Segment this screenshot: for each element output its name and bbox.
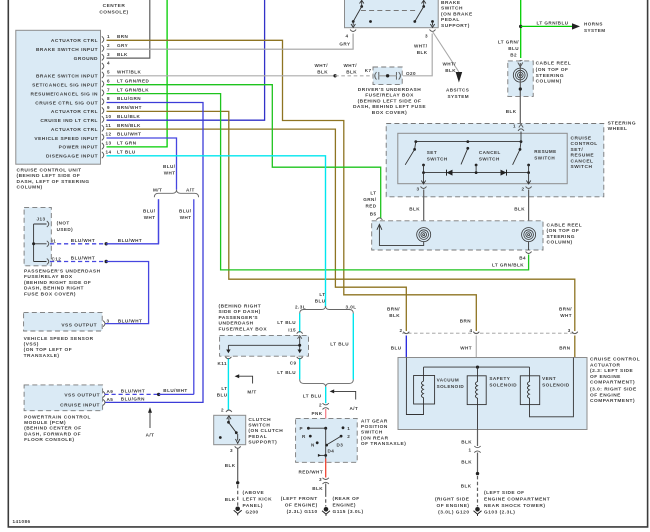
- wire BRN pin1 to actuator pin4: [107, 40, 477, 331]
- connector I1: [47, 241, 49, 247]
- svg-text:WHT/: WHT/: [442, 62, 456, 67]
- cable reel 2 internal link B5 to spiral: [379, 225, 423, 246]
- svg-text:LT GRN/: LT GRN/: [498, 40, 519, 45]
- svg-text:RED/WHT: RED/WHT: [299, 469, 324, 474]
- svg-text:J13: J13: [36, 217, 45, 222]
- brake switch box: [345, 0, 439, 28]
- svg-text:WHEEL: WHEEL: [608, 126, 628, 132]
- label VENT SOLENOID: [542, 376, 570, 388]
- connector K11: [225, 357, 231, 359]
- svg-text:GRY: GRY: [117, 43, 128, 48]
- svg-text:K7: K7: [365, 68, 372, 73]
- switch caption: [571, 136, 598, 171]
- clutch switch internals: [219, 416, 240, 444]
- svg-text:SIDE OF DASH): SIDE OF DASH): [219, 309, 261, 315]
- svg-text:C9: C9: [290, 360, 297, 365]
- actuator pin 3 connector: [572, 332, 578, 334]
- wire LT BLU pin14 disengage input: [107, 156, 326, 307]
- pin 1 connector at top: [518, 129, 524, 131]
- svg-text:BLU/WHT: BLU/WHT: [121, 388, 145, 393]
- svg-text:1: 1: [468, 448, 471, 453]
- svg-text:SWITCH: SWITCH: [427, 157, 448, 162]
- wire BLU pin2 to actuator: [405, 336, 407, 358]
- cable reel 2 caption: [547, 223, 583, 246]
- cable reel 2 spiral right: [522, 228, 536, 242]
- svg-text:BLU/: BLU/: [143, 209, 156, 214]
- svg-text:LT: LT: [370, 191, 376, 196]
- label LT BLU at clutch: [217, 386, 228, 398]
- inline connector pin 1: [474, 446, 480, 453]
- svg-text:BLU: BLU: [217, 393, 228, 398]
- cruise control unit caption: [17, 168, 90, 191]
- svg-text:LT GRN/BLK: LT GRN/BLK: [492, 262, 524, 267]
- svg-text:2: 2: [347, 434, 350, 439]
- label BLU/WHT M/T branch: [143, 209, 156, 221]
- svg-text:(ON REAR: (ON REAR: [361, 435, 389, 441]
- svg-text:I15: I15: [288, 327, 296, 332]
- svg-text:VSS OUTPUT: VSS OUTPUT: [61, 323, 97, 329]
- svg-text:BLU/WHT: BLU/WHT: [71, 256, 95, 261]
- svg-text:SYSTEM: SYSTEM: [584, 28, 606, 33]
- svg-text:B4: B4: [519, 255, 526, 260]
- steering wheel dashed box: [386, 124, 604, 197]
- svg-text:BRAKE: BRAKE: [441, 0, 461, 6]
- svg-text:FUSE/RELAY BOX: FUSE/RELAY BOX: [219, 326, 268, 332]
- svg-text:VENT: VENT: [542, 376, 556, 381]
- svg-text:SOLENOID: SOLENOID: [542, 382, 570, 387]
- label BRN/BLK above pin 2: [387, 307, 400, 319]
- svg-text:BRN/WHT: BRN/WHT: [117, 105, 142, 110]
- wire WHT pin4 to actuator: [475, 336, 477, 358]
- svg-text:D3: D3: [337, 443, 344, 448]
- svg-text:VACUUM: VACUUM: [437, 377, 460, 382]
- svg-text:BLK: BLK: [461, 439, 472, 444]
- svg-text:1: 1: [107, 34, 110, 39]
- caption component above (behind center console), cut off at top: [99, 3, 128, 16]
- resume switch: [513, 142, 530, 173]
- svg-text:CLUTCH: CLUTCH: [248, 417, 271, 423]
- PCM caption: [24, 414, 91, 443]
- svg-text:K11: K11: [217, 361, 227, 366]
- svg-text:3: 3: [107, 318, 110, 323]
- svg-text:BLK: BLK: [506, 109, 517, 114]
- svg-text:M/T: M/T: [247, 390, 256, 395]
- svg-text:BLK: BLK: [409, 207, 420, 212]
- vehicle speed sensor VSS box: [24, 312, 103, 331]
- svg-text:USED): USED): [57, 227, 74, 232]
- svg-text:SET: SET: [427, 150, 437, 155]
- svg-text:(3.0L) G120: (3.0L) G120: [438, 509, 469, 515]
- svg-text:4: 4: [469, 328, 472, 333]
- svg-text:1: 1: [347, 426, 350, 431]
- svg-text:A/T: A/T: [186, 188, 195, 193]
- svg-text:3: 3: [416, 187, 419, 192]
- cable reel 1 coil spiral: [513, 68, 527, 82]
- svg-text:3.0L: 3.0L: [346, 304, 357, 309]
- svg-text:CABLE REEL: CABLE REEL: [547, 223, 583, 229]
- clutch pin 3 connector: [235, 446, 241, 448]
- wire LT GRN/BLU vertical to B2: [520, 0, 522, 58]
- svg-text:LT GRN/RED: LT GRN/RED: [117, 78, 149, 83]
- svg-text:BLU: BLU: [508, 46, 519, 51]
- wire BLK dashed to G200: [237, 485, 239, 506]
- svg-text:BLU/WHT: BLU/WHT: [118, 318, 142, 323]
- label SAFETY SOLENOID: [489, 376, 517, 388]
- ground G120/G103: [474, 507, 482, 516]
- label G115 location: [333, 496, 364, 515]
- svg-text:CONSOLE): CONSOLE): [99, 10, 128, 16]
- svg-text:D4: D4: [328, 449, 335, 454]
- wire LT GRN pin13 power input: [107, 0, 168, 147]
- connector A9: [103, 391, 105, 397]
- svg-text:BRN: BRN: [117, 34, 129, 39]
- svg-text:BLU: BLU: [391, 346, 402, 351]
- wire BLU/WHT C12 dashed to junction: [50, 261, 106, 263]
- svg-text:R: R: [302, 434, 306, 439]
- brake switch pin 3 connector: [430, 30, 436, 32]
- svg-text:ENGINE): ENGINE): [333, 503, 357, 509]
- clutch switch pin 2 connector: [226, 410, 232, 412]
- brake switch internal dashed link: [361, 10, 416, 12]
- svg-text:ACTUATOR CTRL: ACTUATOR CTRL: [51, 127, 98, 133]
- svg-text:CRUISE IND LT CTRL: CRUISE IND LT CTRL: [40, 118, 98, 124]
- svg-text:WHT: WHT: [460, 346, 472, 351]
- svg-text:CANCEL: CANCEL: [571, 158, 594, 164]
- svg-text:2: 2: [221, 408, 224, 413]
- vacuum solenoid: [406, 358, 434, 415]
- set switch: [405, 142, 425, 173]
- junction horns tap: [519, 25, 522, 28]
- A/T pointer arrow at PCM: [149, 412, 151, 429]
- actuator connector dashed line: [402, 332, 573, 334]
- svg-text:STEERING: STEERING: [608, 121, 637, 127]
- svg-text:BRN: BRN: [460, 319, 472, 324]
- cable reel 2 box: [372, 221, 543, 250]
- svg-text:3: 3: [230, 448, 233, 453]
- svg-text:LEFT KICK: LEFT KICK: [243, 496, 273, 502]
- clutch switch caption: [248, 417, 283, 446]
- svg-text:LT GRN: LT GRN: [117, 141, 137, 146]
- svg-text:13: 13: [106, 141, 112, 146]
- svg-text:BLU/GRN: BLU/GRN: [117, 96, 141, 101]
- top rail: [416, 141, 521, 143]
- svg-text:(VSS): (VSS): [24, 342, 39, 348]
- wire BLU/WHT A/T branch to PCM A9 junction: [193, 199, 195, 394]
- svg-text:BLK: BLK: [417, 50, 428, 55]
- svg-text:BLK: BLK: [461, 460, 472, 465]
- svg-text:WHT/: WHT/: [414, 44, 428, 49]
- svg-text:LT BLU: LT BLU: [277, 370, 296, 375]
- wire WHT/BLK dashed to K7: [335, 75, 372, 77]
- M/T pointer arrow at clutch wire: [239, 376, 253, 383]
- connector VSS pin 3: [103, 321, 105, 327]
- wire BLU/WHT M/T branch to I1 junction: [158, 199, 160, 244]
- cable reel 1 caption: [536, 61, 572, 85]
- svg-text:PNK: PNK: [311, 411, 322, 416]
- wire BLK pin2 to cable reel 2: [528, 190, 530, 229]
- splice brace merge to A/T gear switch: [300, 379, 354, 387]
- wire LT GRN/RED pin6 to cable reel B5: [107, 85, 381, 218]
- svg-text:BLU: BLU: [315, 299, 326, 304]
- svg-text:STEERING: STEERING: [547, 234, 576, 240]
- svg-text:(NOT: (NOT: [57, 220, 70, 225]
- svg-text:BLK: BLK: [389, 313, 400, 318]
- wire BLU/WHT A9 junction to A/T branch: [159, 393, 194, 395]
- svg-text:G115 (3.0L): G115 (3.0L): [333, 509, 364, 515]
- diode D2 pointing right: [501, 170, 507, 176]
- svg-text:CRUISE INPUT: CRUISE INPUT: [60, 403, 100, 409]
- label RESUME SWITCH: [534, 149, 556, 161]
- wire LT GRN/BLK pin7 to cable reel B4: [107, 94, 529, 270]
- svg-text:(ON TOP OF: (ON TOP OF: [536, 67, 569, 73]
- svg-text:BLK: BLK: [312, 486, 323, 491]
- svg-text:DISENGAGE INPUT: DISENGAGE INPUT: [46, 154, 98, 160]
- svg-text:3: 3: [568, 328, 571, 333]
- svg-text:LT: LT: [319, 292, 325, 297]
- svg-text:BLU/WHT: BLU/WHT: [163, 388, 187, 393]
- svg-text:BLU/BLK: BLU/BLK: [117, 114, 141, 119]
- svg-text:(BEHIND RIGHT SIDE OF: (BEHIND RIGHT SIDE OF: [24, 280, 91, 286]
- wire BLK pin3 to cable reel 2: [423, 190, 425, 229]
- passenger's underdash fuse/relay box J13: [24, 207, 51, 265]
- svg-text:11: 11: [106, 123, 112, 128]
- svg-text:3: 3: [319, 477, 322, 482]
- label (NOT USED): [57, 220, 74, 232]
- svg-text:(RIGHT SIDE: (RIGHT SIDE: [435, 496, 470, 502]
- svg-text:(ON CLUTCH: (ON CLUTCH: [248, 428, 283, 434]
- svg-text:MODULE (PCM): MODULE (PCM): [24, 420, 66, 426]
- cable reel 2 spiral left: [417, 228, 431, 242]
- svg-text:SWITCH: SWITCH: [534, 156, 555, 161]
- wire to ABS/TCS system: [433, 32, 459, 73]
- svg-text:BLU/WHT: BLU/WHT: [117, 132, 141, 137]
- connector J13: [47, 221, 49, 227]
- svg-text:2.3L: 2.3L: [295, 304, 306, 309]
- cruise unit pin connector arcs 1-14: [102, 36, 104, 158]
- svg-text:VEHICLE SPEED INPUT: VEHICLE SPEED INPUT: [34, 136, 98, 142]
- connector A5: [103, 399, 105, 405]
- svg-text:(ON BRAKE: (ON BRAKE: [441, 11, 473, 17]
- svg-text:(BEHIND LEFT SIDE OF: (BEHIND LEFT SIDE OF: [17, 173, 81, 179]
- svg-text:BOX COVER): BOX COVER): [372, 110, 407, 116]
- svg-text:TRANSAXLE): TRANSAXLE): [24, 353, 60, 359]
- ground G200: [234, 507, 242, 516]
- wire RED/WHT out of gear switch: [325, 459, 327, 478]
- vent solenoid: [520, 358, 573, 417]
- cable reel 1 box: [508, 61, 533, 97]
- svg-text:SAFETY: SAFETY: [489, 376, 510, 381]
- junction inside cable reel: [519, 87, 522, 90]
- svg-text:LT GRN/BLK: LT GRN/BLK: [117, 87, 149, 92]
- svg-text:BLU/GRN: BLU/GRN: [121, 397, 145, 402]
- svg-text:A/T: A/T: [146, 433, 155, 438]
- label WHT/BLK on ABS wire: [442, 62, 456, 74]
- svg-text:(BEHIND LEFT SIDE OF: (BEHIND LEFT SIDE OF: [358, 98, 422, 104]
- svg-text:(ABOVE: (ABOVE: [243, 490, 265, 496]
- svg-text:LT BLU: LT BLU: [330, 342, 349, 347]
- cruise control unit box: [16, 30, 101, 164]
- fuse box caption: [353, 87, 426, 116]
- label G200 location: [243, 490, 273, 509]
- svg-text:A/T: A/T: [350, 406, 359, 411]
- svg-text:BLK: BLK: [117, 52, 128, 57]
- svg-text:WHT: WHT: [164, 171, 176, 176]
- svg-text:2: 2: [399, 328, 402, 333]
- label HORNS SYSTEM: [584, 22, 606, 34]
- svg-text:SWITCH: SWITCH: [441, 6, 463, 12]
- clutch switch box: [214, 415, 246, 444]
- svg-text:SET/: SET/: [571, 147, 584, 153]
- svg-text:4: 4: [107, 61, 110, 66]
- svg-text:C12: C12: [52, 256, 62, 261]
- svg-text:LT BLU: LT BLU: [303, 393, 322, 398]
- label BRN/WHT above pin 3: [559, 307, 572, 319]
- cruise control actuator box: [398, 358, 587, 430]
- svg-text:(REAR OF: (REAR OF: [333, 496, 360, 502]
- svg-text:B2: B2: [510, 53, 517, 58]
- svg-text:A9: A9: [107, 389, 114, 394]
- wire BLK pin3 to center console component: [107, 0, 150, 58]
- svg-text:COLUMN): COLUMN): [17, 185, 43, 191]
- svg-text:POWER INPUT: POWER INPUT: [59, 145, 98, 151]
- svg-text:GRY: GRY: [339, 42, 350, 47]
- svg-text:M/T: M/T: [153, 188, 162, 193]
- driver's underdash fuse/relay box K7/O20: [373, 67, 402, 85]
- svg-text:DASH, LEFT OF STEERING: DASH, LEFT OF STEERING: [17, 179, 90, 185]
- svg-text:A5: A5: [107, 397, 114, 402]
- cruise unit pin function labels: [31, 38, 99, 160]
- wire LT BLU K11 to clutch switch pin2: [227, 358, 229, 410]
- svg-text:LT: LT: [221, 386, 227, 391]
- svg-text:PEDAL: PEDAL: [441, 17, 460, 23]
- svg-text:CANCEL: CANCEL: [479, 150, 501, 155]
- svg-text:LT BLU: LT BLU: [277, 320, 296, 325]
- connector B4: [526, 252, 532, 254]
- cruise control set/resume/cancel switch inner box: [398, 133, 567, 183]
- svg-text:BLK: BLK: [461, 484, 472, 489]
- label G110 location: [281, 496, 318, 515]
- wire BLU/WHT A9 dashed: [105, 393, 159, 395]
- junction A9: [157, 393, 160, 396]
- svg-text:ACTUATOR CTRL: ACTUATOR CTRL: [51, 38, 98, 44]
- wire LT BLU merged to gear switch pin2: [325, 387, 327, 403]
- brake switch left contact set: [351, 0, 364, 27]
- svg-text:BLU/WHT: BLU/WHT: [71, 238, 95, 243]
- wire GRY pin2 to brake switch pin4: [107, 34, 354, 50]
- label STEERING WHEEL: [608, 121, 637, 133]
- svg-text:CONTROL: CONTROL: [571, 141, 598, 147]
- svg-text:B5: B5: [370, 212, 377, 217]
- svg-text:OF ENGINE): OF ENGINE): [285, 503, 318, 509]
- wire PNK into gear switch: [325, 409, 327, 428]
- svg-text:(2.3L) G110: (2.3L) G110: [287, 509, 318, 515]
- svg-text:FUSE BOX COVER): FUSE BOX COVER): [24, 291, 76, 297]
- svg-text:GROUND: GROUND: [74, 56, 98, 62]
- svg-text:ACTUATOR CTRL: ACTUATOR CTRL: [51, 109, 98, 115]
- label G103 location: [484, 490, 550, 515]
- svg-text:BLK: BLK: [445, 68, 456, 73]
- svg-text:OF TRANSAXLE): OF TRANSAXLE): [361, 441, 406, 447]
- svg-text:2: 2: [319, 402, 322, 407]
- svg-text:PASSENGER'S UNDERDASH: PASSENGER'S UNDERDASH: [24, 269, 101, 275]
- cruise unit wire color labels: [117, 34, 149, 155]
- svg-text:2: 2: [521, 187, 524, 192]
- svg-text:BLK: BLK: [346, 69, 357, 74]
- label LT GRN/RED at B5: [363, 191, 377, 209]
- svg-text:VSS OUTPUT: VSS OUTPUT: [64, 393, 100, 399]
- junction clutch ground: [236, 481, 239, 484]
- actuator pin 4 connector: [473, 332, 479, 334]
- svg-text:SYSTEM: SYSTEM: [448, 94, 470, 99]
- svg-text:N: N: [311, 443, 315, 448]
- wire BLK to ground: [325, 484, 327, 494]
- wire BLU/WHT I1 dashed to junction: [50, 243, 106, 245]
- wire spiral right to B4: [528, 242, 530, 250]
- svg-text:O20: O20: [406, 71, 416, 76]
- svg-text:VEHICLE SPEED SENSOR: VEHICLE SPEED SENSOR: [24, 336, 94, 342]
- svg-text:BLK: BLK: [514, 207, 525, 212]
- svg-text:14: 14: [106, 150, 112, 155]
- A/T pointer arrow at gear switch: [334, 391, 356, 399]
- connector I15: [297, 332, 303, 334]
- wire BRN/WHT pin9 to actuator pin3: [107, 111, 575, 331]
- svg-text:POWERTRAIN CONTROL: POWERTRAIN CONTROL: [24, 414, 91, 420]
- svg-text:GRN/: GRN/: [363, 197, 377, 202]
- actuator internal top rail: [424, 366, 530, 368]
- label LT GRN/BLU at B2: [498, 40, 519, 52]
- svg-text:CRUISE CONTROL UNIT: CRUISE CONTROL UNIT: [17, 168, 82, 174]
- wire WHT/BLK pin5 to junction: [107, 75, 336, 77]
- svg-text:WHT/: WHT/: [314, 63, 328, 68]
- J13 internal bus: [34, 224, 47, 262]
- wire BLK dashed to G110/G115: [325, 494, 327, 507]
- svg-text:4: 4: [346, 34, 349, 39]
- svg-text:12: 12: [106, 132, 112, 137]
- svg-text:7: 7: [107, 87, 110, 92]
- A/T gear position switch pin 2 connector: [323, 403, 329, 409]
- svg-text:LT BLU: LT BLU: [117, 150, 136, 155]
- label WHT/BLK below pin 3: [414, 44, 428, 56]
- svg-text:CRUISE CONTROL: CRUISE CONTROL: [590, 357, 640, 363]
- svg-text:RESUME: RESUME: [534, 149, 556, 154]
- wire BRN/BLK pin11 to actuator pin2: [107, 129, 407, 331]
- svg-text:ENGINE COMPARTMENT: ENGINE COMPARTMENT: [484, 497, 550, 503]
- wire LT GRN/BLU to horns system: [521, 25, 572, 27]
- svg-text:SWITCH: SWITCH: [361, 430, 383, 436]
- wire BLK clutch to ground junction: [237, 449, 239, 483]
- svg-text:P: P: [300, 426, 304, 431]
- wire BLK cable reel to switch pin 1: [519, 63, 521, 127]
- label BLU/WHT above brace: [163, 164, 176, 176]
- svg-text:SWITCH: SWITCH: [571, 164, 593, 170]
- svg-text:LT GRN/BLU: LT GRN/BLU: [537, 21, 569, 26]
- svg-text:RESUME/CANCEL SIG IN: RESUME/CANCEL SIG IN: [31, 91, 99, 97]
- svg-text:FLOOR CONSOLE): FLOOR CONSOLE): [24, 437, 74, 443]
- svg-text:BLU/WHT: BLU/WHT: [118, 238, 142, 243]
- wire pin1 into box: [520, 132, 522, 142]
- svg-text:CRUISE: CRUISE: [571, 136, 592, 142]
- svg-text:BRAKE SWITCH INPUT: BRAKE SWITCH INPUT: [36, 47, 98, 53]
- svg-text:SOLENOID: SOLENOID: [437, 384, 465, 389]
- svg-text:G200: G200: [246, 510, 259, 515]
- J13 box caption: [24, 269, 101, 298]
- svg-text:ACTUATOR: ACTUATOR: [590, 362, 621, 368]
- passenger's underdash fuse/relay box lower: [220, 335, 309, 356]
- actuator caption: [590, 357, 640, 404]
- connector B5: [376, 218, 382, 220]
- svg-text:PANEL): PANEL): [243, 503, 264, 509]
- svg-text:BLU/: BLU/: [163, 164, 176, 169]
